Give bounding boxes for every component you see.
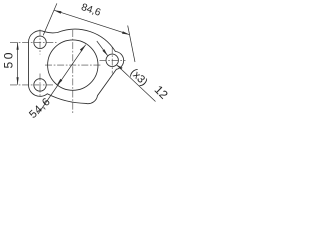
leader (x3)12 upper stub [97, 41, 108, 56]
centerline hole R horizontal [100, 59, 126, 61]
leader (x3)12 lower [117, 65, 156, 102]
flange outline [28, 29, 123, 103]
centerlines [10, 30, 126, 114]
arrow hole-dia upper [102, 49, 107, 56]
dim 84,6 line [54, 10, 130, 34]
arrow 54,6 upper-right [80, 45, 86, 52]
dim 50 line [17, 42, 19, 85]
centerline bore horizontal [45, 64, 102, 66]
arrow 84,6 right [122, 31, 130, 34]
centerline hole BL horizontal / ext for 50 [10, 84, 53, 86]
centerline hole TL vertical [39, 30, 41, 55]
centerline hole R vertical [111, 47, 113, 74]
dim 84,6 ext right [128, 26, 135, 63]
bore circle [48, 40, 98, 90]
arrow 54,6 lower-left [57, 79, 63, 86]
dia 54,6 leader line [38, 45, 86, 114]
dim 84,6 ext left [43, 3, 57, 35]
centerline bore vertical [72, 30, 74, 113]
bolt hole right [106, 54, 118, 66]
arrow hole-dia lower [117, 65, 123, 70]
arrow 50 bottom [17, 77, 19, 85]
arrow 50 top [17, 42, 19, 50]
arrow 84,6 left [54, 10, 62, 14]
centerline hole TL horizontal / ext for 50 [10, 41, 57, 43]
svg-text:50: 50 [1, 50, 15, 68]
bolt hole top-left [34, 36, 46, 48]
centerline hole BL vertical [39, 74, 41, 97]
bolt hole bottom-left [34, 79, 46, 91]
